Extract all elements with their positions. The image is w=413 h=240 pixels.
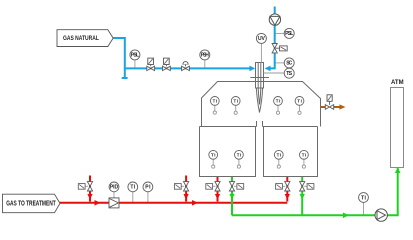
svg-text:TI: TI bbox=[277, 152, 282, 157]
svg-text:TI: TI bbox=[297, 99, 302, 104]
svg-text:TI: TI bbox=[211, 152, 216, 157]
svg-text:TI: TI bbox=[276, 99, 281, 104]
svg-text:PID: PID bbox=[110, 185, 119, 191]
svg-text:TS: TS bbox=[286, 71, 292, 77]
svg-text:PSH: PSH bbox=[201, 53, 210, 59]
svg-text:TI: TI bbox=[361, 195, 366, 201]
svg-text:TI: TI bbox=[130, 185, 135, 191]
svg-text:ATM: ATM bbox=[391, 80, 404, 86]
svg-text:GAS NATURAL: GAS NATURAL bbox=[63, 35, 99, 42]
svg-text:TI: TI bbox=[237, 152, 242, 157]
svg-text:TI: TI bbox=[213, 99, 218, 104]
svg-text:UV: UV bbox=[258, 36, 265, 42]
svg-text:TI: TI bbox=[302, 152, 307, 157]
svg-text:SC: SC bbox=[286, 61, 292, 67]
svg-text:PSL: PSL bbox=[285, 31, 293, 37]
svg-text:TI: TI bbox=[234, 99, 239, 104]
svg-text:PI: PI bbox=[145, 185, 151, 191]
svg-text:PSL: PSL bbox=[131, 53, 139, 59]
svg-text:GAS TO TREATMENT: GAS TO TREATMENT bbox=[6, 201, 56, 208]
